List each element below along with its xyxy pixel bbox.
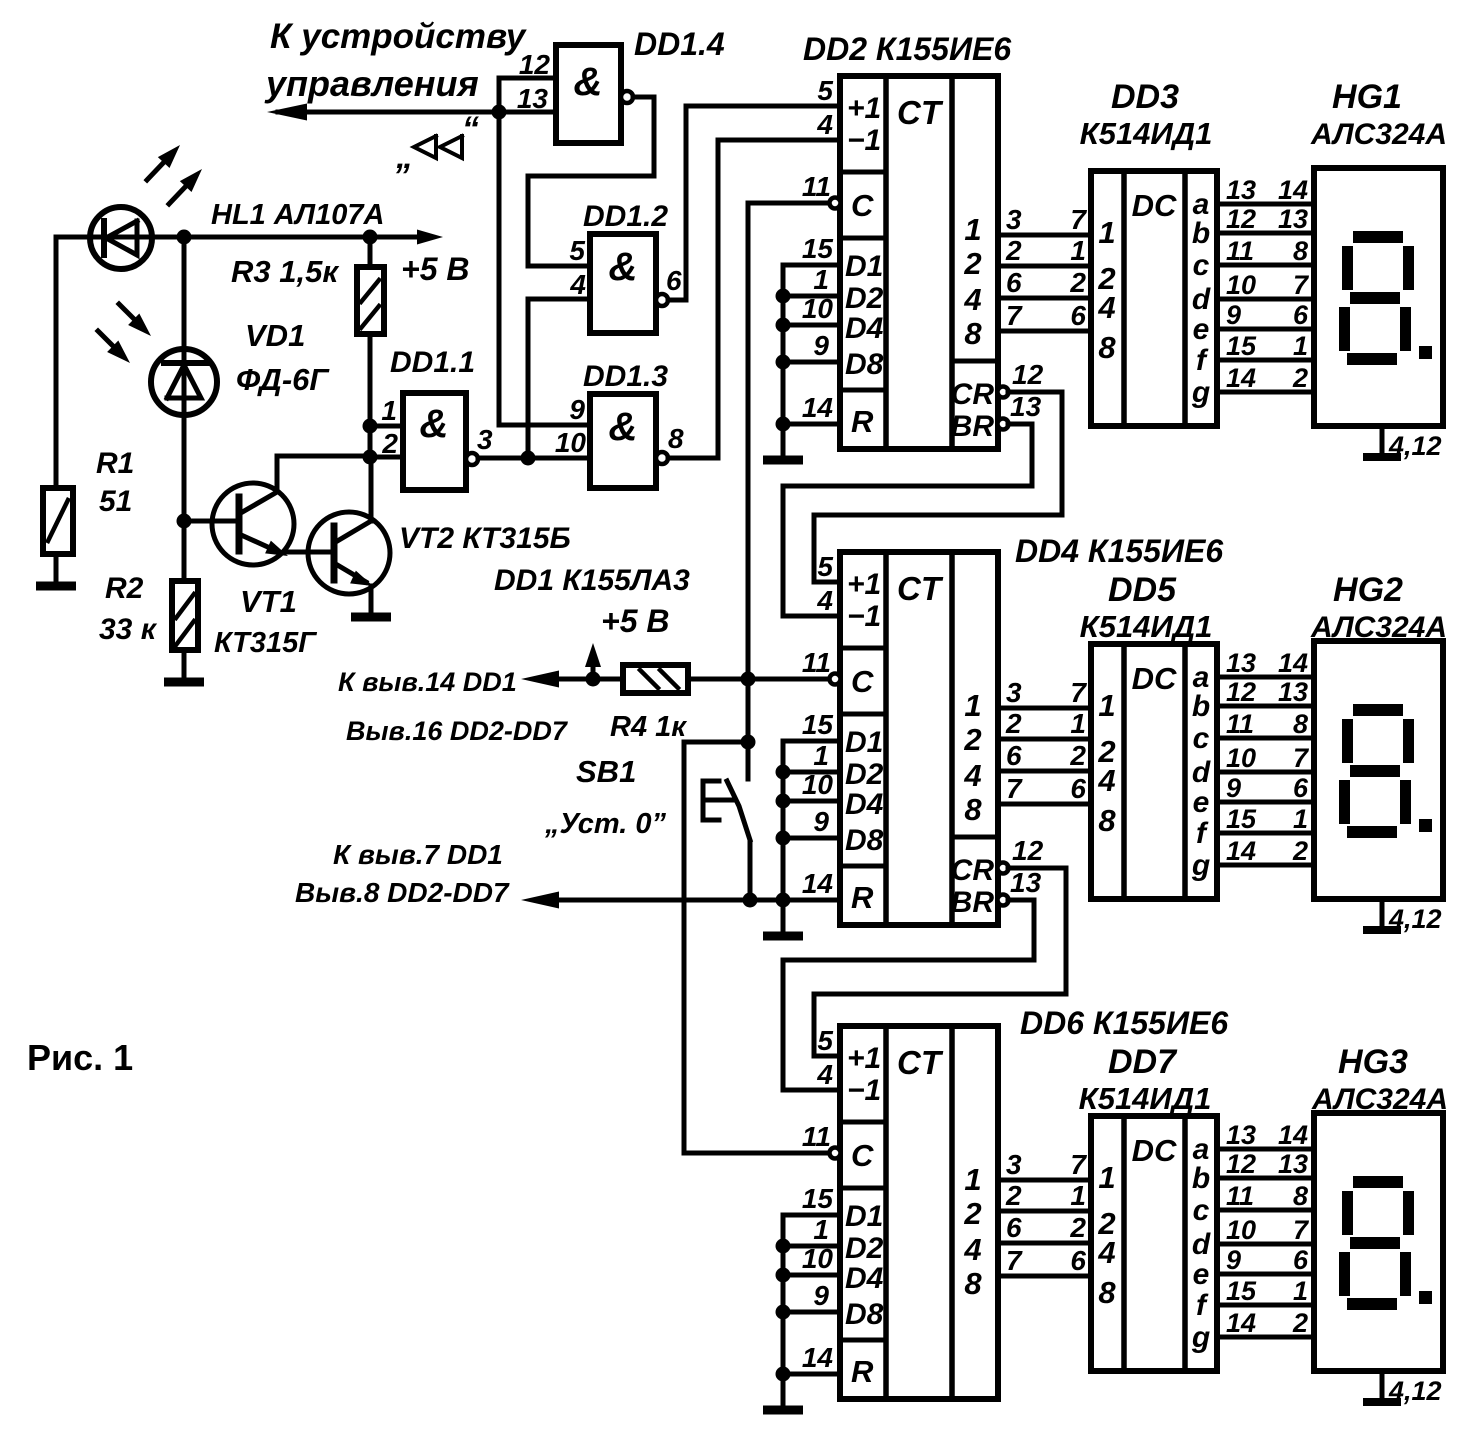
ground under R1	[36, 582, 76, 591]
svg-text:15: 15	[1226, 331, 1257, 361]
svg-text:7: 7	[1293, 1215, 1310, 1245]
DD7 in8 label	[1098, 1275, 1116, 1310]
svg-text:10: 10	[1226, 743, 1256, 773]
svg-text:2: 2	[1292, 363, 1308, 393]
wire out4 DD4 to DC	[998, 802, 1091, 807]
wire d DD7 to HG3	[1217, 1242, 1314, 1247]
svg-text:BR: BR	[951, 886, 995, 919]
label DC of DD7	[1132, 1133, 1177, 1168]
counter DD4 box	[840, 552, 998, 925]
segment letter c DD7	[1193, 1194, 1210, 1227]
pin9 label DD2	[813, 330, 829, 361]
node D4 DD2	[776, 318, 791, 333]
gate DD1.1	[403, 393, 466, 490]
wire DD1.1 out	[478, 456, 590, 461]
svg-text:SB1: SB1	[576, 754, 636, 789]
wire R2 to ground	[182, 650, 187, 678]
svg-text:“: “	[462, 110, 479, 148]
inverter circle DD1.1 out	[466, 453, 478, 465]
inverter circle DD1.3 out	[656, 452, 668, 464]
svg-text:2: 2	[1005, 1180, 1022, 1211]
arrow +5V mid	[585, 643, 601, 679]
svg-text:b: b	[1192, 217, 1210, 250]
svg-text:5: 5	[817, 75, 833, 106]
wire R3 top	[368, 237, 373, 267]
pin9 label DD4	[813, 806, 829, 837]
svg-text:1: 1	[1070, 1180, 1086, 1211]
wire out2 DD2 to DC	[998, 264, 1091, 269]
segment letter a DD5	[1193, 661, 1210, 694]
svg-text:3: 3	[1006, 1149, 1022, 1180]
gate DD1.2	[590, 234, 656, 333]
svg-text:8: 8	[1098, 803, 1116, 838]
wire out1 DD2 to DC	[998, 233, 1091, 238]
wire C DD2	[748, 201, 829, 206]
ground under R2	[164, 678, 204, 687]
node DD1.1 pin2	[363, 450, 378, 465]
transistor VT1 KT315G	[212, 483, 294, 565]
arrowhead control line	[267, 104, 307, 121]
svg-text:+1: +1	[847, 568, 881, 601]
svg-text:R1: R1	[96, 447, 134, 480]
pin 11 label DD5	[1226, 709, 1254, 739]
svg-text:HG1: HG1	[1332, 78, 1402, 116]
ground of DD6	[763, 1406, 803, 1415]
pin label 2 at counter	[1005, 708, 1022, 739]
svg-text:2: 2	[381, 428, 398, 459]
DD5 in4 label	[1097, 763, 1115, 798]
segment letter e DD3	[1193, 313, 1210, 346]
wire D4 DD6	[783, 1273, 840, 1278]
svg-text:R: R	[851, 880, 874, 915]
pin 5 label	[569, 235, 585, 266]
svg-text:C: C	[851, 1138, 874, 1173]
DD6 D2 label	[845, 1232, 884, 1265]
svg-text:1: 1	[1070, 708, 1086, 739]
wire C to DD6	[684, 1151, 829, 1156]
svg-text:15: 15	[1226, 1276, 1257, 1306]
DD2 -1 label	[847, 124, 881, 157]
display HG1 box	[1314, 168, 1443, 426]
svg-text:9: 9	[569, 394, 585, 425]
pin 11 label DD3	[1226, 236, 1254, 266]
label 4,12 of HG3	[1388, 1376, 1442, 1406]
svg-text:−1: −1	[847, 600, 881, 633]
svg-text:4: 4	[963, 282, 981, 317]
arrowhead ground line	[521, 892, 559, 909]
pin 9 label DD3	[1226, 300, 1241, 330]
node D4 DD6	[776, 1268, 791, 1283]
pin label 1 at DC	[1070, 1180, 1086, 1211]
wire to R2	[182, 521, 187, 581]
svg-text:15: 15	[1226, 804, 1257, 834]
DD5 in8 label	[1098, 803, 1116, 838]
svg-text:4: 4	[816, 1059, 833, 1090]
arrow to +5V	[417, 230, 443, 245]
node D2 DD4	[776, 765, 791, 780]
svg-text:5: 5	[817, 551, 833, 582]
pin 10 label DD7	[1226, 1215, 1256, 1245]
DD7 in4 label	[1097, 1235, 1115, 1270]
svg-text:8: 8	[1293, 1181, 1308, 1211]
DD2 D8 label	[845, 348, 884, 381]
svg-text:DD1.2: DD1.2	[583, 200, 668, 233]
svg-text:14: 14	[802, 392, 834, 423]
svg-text:1: 1	[813, 264, 829, 295]
inverter circle BR DD2	[998, 419, 1009, 430]
label ALS324A row1	[1310, 118, 1447, 151]
resistor R4	[623, 665, 688, 693]
DD2 out8 label	[964, 316, 982, 351]
inverter circle DD1.2 out	[656, 294, 668, 306]
svg-text:5: 5	[569, 235, 585, 266]
svg-text:9: 9	[813, 806, 829, 837]
wire CR DD4 to DD6 +1	[814, 868, 1066, 1056]
pin 9 label DD5	[1226, 773, 1241, 803]
label DC of DD5	[1132, 661, 1177, 696]
svg-text:6: 6	[1006, 1212, 1022, 1243]
wire out2 DD6 to DC	[998, 1209, 1091, 1214]
segment letter f DD7	[1196, 1289, 1209, 1322]
svg-text:6: 6	[1070, 1245, 1086, 1276]
svg-text:11: 11	[802, 1121, 831, 1152]
svg-text:7: 7	[1070, 677, 1087, 708]
svg-text:51: 51	[99, 485, 132, 518]
svg-text:12: 12	[1012, 359, 1044, 390]
svg-text:12: 12	[1012, 835, 1044, 866]
wire C bus jog	[684, 742, 748, 1153]
svg-text:c: c	[1193, 722, 1210, 755]
pin label 6 at DC	[1070, 300, 1086, 331]
wire D2 DD4	[783, 770, 840, 775]
svg-text:D8: D8	[845, 824, 884, 857]
svg-text:4: 4	[963, 1232, 981, 1267]
DD4 CR label	[951, 854, 995, 887]
svg-text:b: b	[1192, 690, 1210, 723]
pin 1 label HG1	[1293, 331, 1308, 361]
svg-text:3: 3	[477, 424, 493, 455]
pin 1 label	[381, 395, 397, 426]
wire d DD5 to HG2	[1217, 770, 1314, 775]
pin label 6 at DC	[1070, 1245, 1086, 1276]
pin 13 label DD7	[1226, 1120, 1256, 1150]
label CT of DD4	[897, 570, 944, 607]
svg-text:5: 5	[817, 1025, 833, 1056]
wire a DD5 to HG2	[1217, 675, 1314, 680]
node D4 DD4	[776, 794, 791, 809]
svg-text:4: 4	[1097, 290, 1115, 325]
resistor R3	[357, 267, 384, 334]
inverter circle C DD4	[830, 674, 841, 685]
node R DD6	[776, 1367, 791, 1382]
label VT2 KT315B	[399, 522, 571, 555]
svg-text:d: d	[1192, 756, 1211, 789]
wire f DD5 to HG2	[1217, 831, 1314, 836]
svg-text:АЛС324А: АЛС324А	[1310, 611, 1447, 644]
pin label 2 at DC	[1069, 267, 1086, 298]
wire to DD1.1 pin 2	[370, 455, 403, 460]
label R3 1.5k	[231, 254, 339, 289]
DD6 out1 label	[964, 1162, 981, 1197]
svg-text:6: 6	[666, 265, 682, 296]
node switch to ground line	[743, 893, 758, 908]
pin5 label DD4	[817, 551, 833, 582]
svg-text:g: g	[1191, 849, 1210, 882]
pin 8 label HG1	[1293, 236, 1308, 266]
segment letter g DD3	[1191, 376, 1210, 409]
wire D2 DD2	[783, 294, 840, 299]
pin 10 label	[555, 427, 587, 458]
pin label 7 at DC	[1070, 1149, 1087, 1180]
display HG2 box	[1314, 641, 1443, 899]
inverter circle BR DD4	[998, 895, 1009, 906]
svg-text:6: 6	[1293, 300, 1309, 330]
label K514ID1 row1	[1080, 116, 1213, 151]
wire R DD4	[783, 898, 840, 903]
label HG3	[1338, 1043, 1408, 1081]
wire D1 DD6	[783, 1213, 840, 1218]
label DD4 K155IE6	[1015, 533, 1223, 569]
label 4,12 of HG1	[1388, 431, 1442, 461]
DD6 D1 label	[845, 1200, 883, 1233]
svg-text:1: 1	[1070, 235, 1086, 266]
label CT of DD2	[897, 94, 944, 131]
pin4 label DD2	[816, 109, 833, 140]
svg-text:&: &	[609, 245, 638, 289]
svg-text:b: b	[1192, 1162, 1210, 1195]
segment letter c DD5	[1193, 722, 1210, 755]
segment letter e DD5	[1193, 786, 1210, 819]
DD4 C label	[851, 664, 874, 699]
svg-text:11: 11	[802, 647, 831, 678]
svg-text:4,12: 4,12	[1388, 904, 1442, 934]
wire out3 DD2 to DC	[998, 296, 1091, 301]
segment letter a DD3	[1193, 188, 1210, 221]
DD3 in4 label	[1097, 290, 1115, 325]
wire e DD7 to HG3	[1217, 1272, 1314, 1277]
svg-text:+1: +1	[847, 92, 881, 125]
label DD1.2	[583, 200, 668, 233]
pin label 2 at DC	[1069, 1212, 1086, 1243]
svg-text:14: 14	[1278, 648, 1308, 678]
svg-text:HL1 АЛ107А: HL1 АЛ107А	[211, 199, 384, 231]
svg-text:14: 14	[1226, 1308, 1256, 1338]
seven segment digit of HG1	[1339, 231, 1432, 365]
DD2 D1 label	[845, 250, 883, 283]
svg-text:11: 11	[1226, 709, 1254, 739]
pin11 label DD6	[802, 1121, 831, 1152]
svg-text:+5 В: +5 В	[401, 251, 469, 287]
svg-text:C: C	[851, 188, 874, 223]
pin12 label DD4	[1012, 835, 1044, 866]
wire c DD7 to HG3	[1217, 1208, 1314, 1213]
pin14 label DD4	[802, 868, 834, 899]
label R2 33k	[99, 572, 158, 646]
label DD2 K155IE6	[803, 31, 1011, 67]
label DD3	[1111, 78, 1179, 116]
svg-text:2: 2	[1069, 267, 1086, 298]
label HL1 AL107A	[211, 199, 384, 231]
wire +5V rail	[56, 235, 432, 240]
DD4 out1 label	[964, 688, 981, 723]
svg-text:8: 8	[1098, 330, 1116, 365]
pin label 2 at counter	[1005, 1180, 1022, 1211]
svg-text:8: 8	[964, 792, 982, 827]
pin13 label DD2	[1010, 391, 1042, 422]
svg-text:2: 2	[1069, 740, 1086, 771]
wire pin4 riser	[526, 299, 531, 458]
pin label 6 at counter	[1006, 267, 1022, 298]
svg-text:R: R	[851, 404, 874, 439]
wire HL1 to R1	[54, 237, 59, 488]
pin 8 label HG3	[1293, 1181, 1308, 1211]
svg-text:ФД-6Г: ФД-6Г	[236, 362, 330, 397]
svg-text:CT: CT	[897, 1044, 944, 1081]
svg-text:КТ315Г: КТ315Г	[214, 627, 317, 659]
pin 11 label DD7	[1226, 1181, 1254, 1211]
svg-text:АЛС324А: АЛС324А	[1310, 118, 1447, 151]
DD2 CRBR separator	[952, 359, 998, 364]
wire C bus down	[746, 679, 751, 742]
svg-text:13: 13	[1010, 867, 1042, 898]
pin label 7 at DC	[1070, 204, 1087, 235]
wire f DD3 to HG1	[1217, 358, 1314, 363]
svg-text:К выв.14 DD1: К выв.14 DD1	[338, 667, 517, 697]
svg-text:D4: D4	[845, 1262, 884, 1295]
decoder DD5 box	[1091, 644, 1217, 899]
label DC of DD3	[1132, 188, 1177, 223]
wire out4 DD6 to DC	[998, 1274, 1091, 1279]
wire D4 DD2	[783, 323, 840, 328]
wire out2 DD4 to DC	[998, 737, 1091, 742]
wire DD1.2 pin4	[528, 297, 590, 302]
pin label 7 at counter	[1006, 300, 1023, 331]
svg-text:К выв.7 DD1: К выв.7 DD1	[333, 839, 503, 870]
svg-text:VD1: VD1	[245, 318, 305, 353]
svg-text:CR: CR	[951, 854, 995, 887]
pin label 3 at counter	[1006, 1149, 1022, 1180]
wire D8 DD4	[783, 836, 840, 841]
wire e DD3 to HG1	[1217, 327, 1314, 332]
wire C bus DD2 to R4	[746, 203, 751, 679]
svg-text:4: 4	[1097, 1235, 1115, 1270]
LED HL1 AL107A	[90, 207, 152, 269]
wire D bus DD4	[781, 741, 786, 932]
DD3 in1 label	[1098, 215, 1115, 250]
svg-text:Выв.16 DD2-DD7: Выв.16 DD2-DD7	[346, 716, 569, 746]
svg-text:D2: D2	[845, 282, 884, 315]
svg-text:1: 1	[964, 1162, 981, 1197]
svg-text:6: 6	[1293, 1245, 1309, 1275]
wire D1 DD2	[783, 263, 840, 268]
svg-text:14: 14	[1226, 363, 1256, 393]
svg-text:1: 1	[964, 688, 981, 723]
resistor R2	[172, 581, 198, 650]
DD2 D2 label	[845, 282, 884, 315]
svg-text:DC: DC	[1132, 1133, 1177, 1168]
svg-text:8: 8	[1293, 236, 1308, 266]
wire d DD3 to HG1	[1217, 297, 1314, 302]
DD7 in2 label	[1097, 1206, 1115, 1241]
svg-text:4: 4	[569, 269, 586, 300]
resistor R1	[43, 488, 73, 554]
svg-text:9: 9	[813, 330, 829, 361]
svg-text:13: 13	[1010, 391, 1042, 422]
svg-text:d: d	[1192, 1228, 1211, 1261]
DD6 +1 label	[847, 1042, 881, 1075]
node C bus switch tap	[741, 735, 756, 750]
label K514ID1 row2	[1080, 609, 1213, 644]
label +5V mid	[601, 603, 669, 639]
gate DD1.4	[556, 45, 621, 143]
wire HL1 to VD1	[182, 237, 187, 521]
arrowhead K vyv14	[521, 671, 559, 688]
pin 9 label DD7	[1226, 1245, 1241, 1275]
DD5 in2 label	[1097, 734, 1115, 769]
svg-text:HG2: HG2	[1333, 571, 1403, 609]
svg-text:DD1.3: DD1.3	[583, 360, 668, 393]
DD2 R label	[851, 404, 874, 439]
svg-text:6: 6	[1006, 740, 1022, 771]
rewind symbol	[395, 110, 479, 176]
svg-text:−1: −1	[847, 1074, 881, 1107]
label to control device	[264, 17, 527, 104]
wire DD1.2 out to DD2 plus1	[668, 106, 840, 300]
pin 14 label HG3	[1278, 1120, 1308, 1150]
svg-text:7: 7	[1006, 300, 1023, 331]
decoder DD7 box	[1091, 1116, 1217, 1371]
node DD1.1 pin1	[363, 419, 378, 434]
svg-text:−1: −1	[847, 124, 881, 157]
pin 10 label DD5	[1226, 743, 1256, 773]
wire R1 to ground	[54, 554, 59, 582]
pin label 7 at counter	[1006, 1245, 1023, 1276]
node R DD4	[776, 893, 791, 908]
svg-text:9: 9	[1226, 773, 1241, 803]
pin 6 label HG3	[1293, 1245, 1309, 1275]
svg-text:10: 10	[1226, 270, 1256, 300]
pin 13 label	[517, 83, 549, 114]
wire R DD6	[783, 1372, 840, 1377]
svg-text:2: 2	[1005, 235, 1022, 266]
wire R3 to gate	[368, 334, 373, 457]
svg-text:4,12: 4,12	[1388, 1376, 1442, 1406]
svg-text:R4 1к: R4 1к	[610, 711, 687, 743]
svg-text:DD3: DD3	[1111, 78, 1179, 116]
svg-text:1: 1	[813, 740, 829, 771]
pin9 label DD6	[813, 1280, 829, 1311]
wire to DD1.1 pin 1	[370, 424, 403, 429]
svg-text:8: 8	[1098, 1275, 1116, 1310]
DD4 D2 label	[845, 758, 884, 791]
pin 1 label HG3	[1293, 1276, 1308, 1306]
pin1 label DD4	[813, 740, 829, 771]
segment letter c DD3	[1193, 249, 1210, 282]
svg-text:1: 1	[964, 212, 981, 247]
vertical pins 12-13 to DD1.3 pin9	[497, 78, 502, 425]
segment letter a DD7	[1193, 1133, 1210, 1166]
pin 14 label DD3	[1226, 363, 1256, 393]
svg-text:D4: D4	[845, 788, 884, 821]
DD2 BR label	[951, 410, 995, 443]
DD6 out2 label	[963, 1196, 981, 1231]
svg-text:1: 1	[1098, 1160, 1115, 1195]
svg-text:2: 2	[963, 722, 981, 757]
svg-text:DD1.1: DD1.1	[390, 346, 475, 379]
wire DD1.3 pin9	[499, 423, 590, 428]
wire ground line	[536, 898, 840, 903]
wire b DD7 to HG3	[1217, 1176, 1314, 1181]
